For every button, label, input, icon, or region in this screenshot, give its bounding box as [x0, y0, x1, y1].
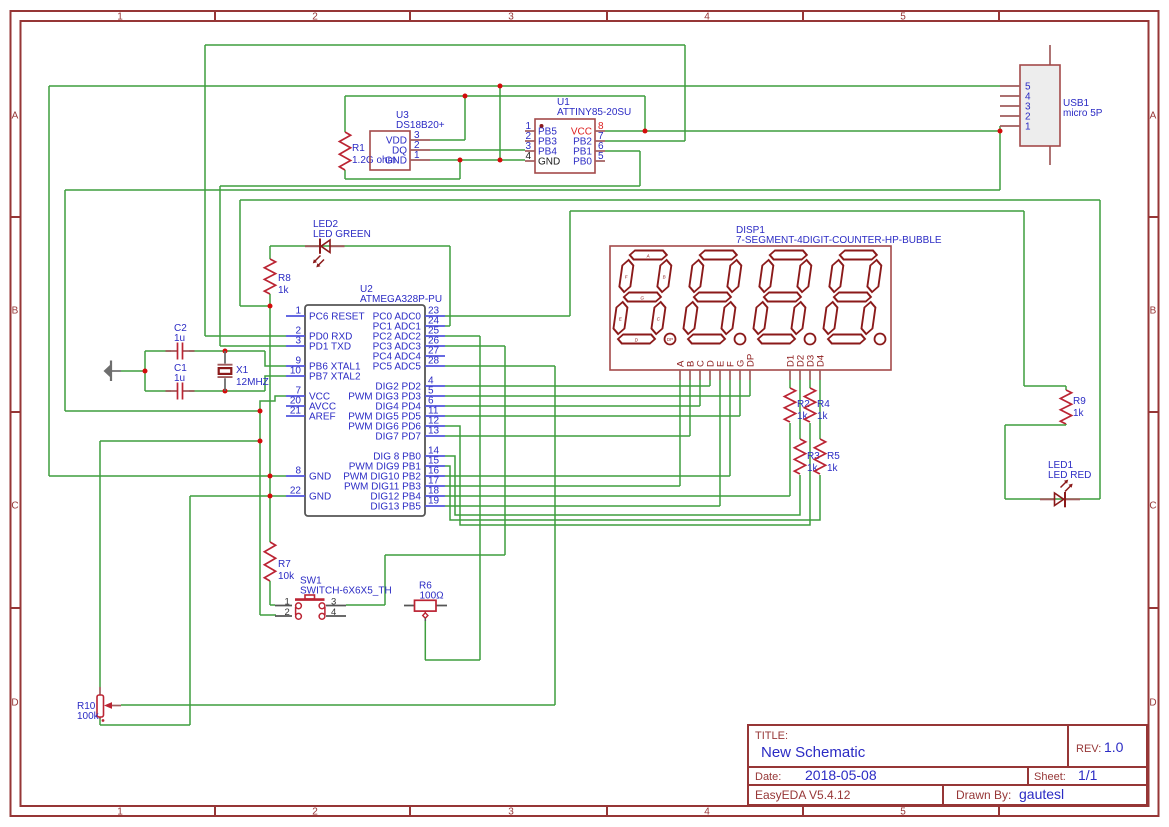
wire seg D vertical	[709, 380, 711, 386]
pin U2 13 line	[425, 435, 445, 437]
wire SW1 pin3 row	[346, 604, 385, 606]
svg-text:R4: R4	[817, 399, 830, 410]
svg-text:1u: 1u	[174, 333, 185, 344]
wire D1 to R2 top	[789, 380, 791, 388]
pin U2 20 line	[286, 405, 305, 407]
svg-text:DIG13 PB5: DIG13 PB5	[370, 502, 421, 513]
border tick bottom x410	[409, 806, 411, 816]
pin U2 26 line	[425, 345, 445, 347]
wire R10 top vertical	[99, 441, 101, 687]
svg-text:R5: R5	[827, 451, 840, 462]
resistor R6 symbol	[404, 600, 447, 621]
display DP2	[735, 334, 746, 345]
svg-text:100k: 100k	[77, 711, 100, 722]
svg-text:GND: GND	[538, 157, 560, 168]
wire R9 bottom lead	[1065, 424, 1067, 425]
svg-text:PC5 ADC5: PC5 ADC5	[373, 362, 422, 373]
wire GND vertical through R8 bottom	[269, 306, 271, 542]
svg-text:LED RED: LED RED	[1048, 470, 1091, 481]
wire R9 top lead	[1065, 386, 1067, 390]
svg-text:2: 2	[285, 607, 290, 618]
svg-text:R1: R1	[352, 143, 365, 154]
svg-text:R8: R8	[278, 273, 291, 284]
wire R9 bottom row	[1005, 424, 1066, 426]
pin U2 4 line	[425, 385, 445, 387]
svg-text:micro 5P: micro 5P	[1063, 108, 1103, 119]
svg-text:C: C	[11, 501, 18, 512]
svg-text:1/1: 1/1	[1078, 767, 1098, 783]
display DP1	[665, 334, 676, 345]
wire VCC jog to U2 pin7	[260, 396, 286, 411]
wire LED2 lead red right	[330, 245, 345, 247]
border tick bottom x215	[214, 806, 216, 816]
wire PD0 vertical down	[204, 45, 206, 336]
junction VCC-USB pin1	[998, 129, 1003, 134]
wire R6 row	[425, 659, 480, 661]
svg-text:2: 2	[312, 12, 318, 23]
pin USB1 1 stub	[1000, 125, 1020, 127]
svg-text:1: 1	[117, 807, 123, 818]
wire VCC U1 pin8 row	[605, 130, 1000, 132]
svg-text:SWITCH-6X6X5_TH: SWITCH-6X6X5_TH	[300, 586, 392, 597]
wire LED2 anode lead	[269, 246, 271, 259]
svg-text:DP: DP	[667, 337, 673, 342]
svg-text:PC6 RESET: PC6 RESET	[309, 312, 365, 323]
wire VCC left vertical	[64, 190, 66, 411]
wire R2 bottom vertical	[789, 423, 791, 496]
border tick top x999	[998, 11, 1000, 21]
svg-text:New Schematic: New Schematic	[761, 744, 866, 761]
svg-text:DIG7 PD7: DIG7 PD7	[375, 432, 421, 443]
wire ground link	[121, 370, 145, 372]
junction xtal bottom	[223, 389, 228, 394]
pin U1 3 stub	[525, 150, 535, 152]
switch SW1 symbol	[275, 595, 346, 619]
svg-text:3: 3	[508, 807, 514, 818]
wire xtal top to U2 pin9	[265, 351, 286, 366]
junction GND U2 pin22	[268, 494, 273, 499]
wire R6 wiper lead	[424, 620, 426, 660]
junction VCC row pin7	[258, 409, 263, 414]
resistor R1	[339, 132, 350, 170]
pin U2 28 line	[425, 365, 445, 367]
wire PB2 seg row	[445, 475, 730, 477]
IC U2 body	[305, 305, 425, 516]
wire xtal bottom row left	[145, 390, 171, 392]
wire DQ row	[430, 149, 525, 151]
pin U2 16 line	[425, 475, 445, 477]
wire LED1 right vertical	[1099, 200, 1101, 499]
wire PC2 vertical	[479, 336, 481, 660]
pin U2 5 line	[425, 395, 445, 397]
resistor R5	[814, 439, 825, 474]
pin U2 9 line	[286, 365, 305, 367]
svg-text:PB0: PB0	[573, 157, 592, 168]
wire PD1 vertical down	[219, 186, 221, 346]
svg-text:4: 4	[704, 807, 710, 818]
svg-text:1k: 1k	[817, 411, 829, 422]
wire LED1 lead red right	[1066, 498, 1081, 500]
wire PB3 seg row	[445, 485, 680, 487]
wire R1 bottom lead	[344, 170, 346, 179]
pin U2 8 line	[286, 475, 305, 477]
wire PB1 row at U1	[605, 150, 640, 152]
wire SW1 net row	[385, 554, 505, 556]
pin U3 2 stub	[410, 149, 430, 151]
ground symbol	[104, 361, 122, 382]
wire seg G vertical	[739, 380, 741, 416]
border tick right y217	[1148, 216, 1158, 218]
pin U2 11 line	[425, 415, 445, 417]
border tick right y608	[1148, 607, 1158, 609]
svg-text:gautesl: gautesl	[1019, 786, 1064, 802]
svg-text:5: 5	[900, 807, 906, 818]
svg-text:C: C	[1149, 501, 1156, 512]
pin U1 7 stub	[595, 140, 605, 142]
wire PB0 to R3 bottom	[445, 456, 800, 515]
wire seg DP vertical	[749, 380, 751, 396]
wire jog R8-bottom	[240, 305, 270, 307]
junction ground symbol	[143, 369, 148, 374]
resistor R2	[784, 388, 795, 422]
wire VCC row to R10 top	[100, 440, 260, 442]
capacitor C1 symbol	[166, 383, 195, 400]
pin DISP1 B stub	[689, 370, 691, 380]
wire PB2 top row	[205, 44, 685, 46]
pin USB1 5 stub	[1000, 85, 1020, 87]
wire PD2 row	[445, 385, 710, 387]
display DISP1 body	[610, 246, 891, 370]
wire PB1 to R5 bottom	[445, 466, 820, 520]
svg-text:13: 13	[428, 426, 440, 437]
svg-text:DS18B20+: DS18B20+	[396, 120, 445, 131]
pin U1 1 stub	[525, 130, 535, 132]
wire VCC long row	[65, 189, 1000, 191]
capacitor C2 symbol	[166, 343, 195, 360]
svg-text:1.0: 1.0	[1104, 739, 1124, 755]
pin U1 6 stub	[595, 150, 605, 152]
pin U1 8 stub	[595, 130, 605, 132]
wire GND row to U2 pin22	[190, 495, 286, 497]
wire R10 bottom row	[100, 724, 190, 726]
LED LED1 symbol	[1055, 480, 1073, 508]
svg-text:10k: 10k	[278, 571, 295, 582]
wire seg B vertical	[689, 380, 691, 436]
wire xtal bottom row right	[189, 390, 265, 392]
pin U2 27 line	[425, 355, 445, 357]
wire R10 bottom lead	[99, 717, 101, 725]
wire PB1 middle row	[220, 185, 640, 187]
wire GND row to U2 pin8	[49, 475, 286, 477]
svg-text:PB7 XTAL2: PB7 XTAL2	[309, 372, 361, 383]
wire VCC right vertical to USB pin1	[999, 126, 1001, 190]
wire GND U3-U1 row	[430, 159, 525, 161]
display digit 1 segments	[611, 251, 673, 344]
wire GND drop to U3 row	[499, 86, 501, 160]
wire LED1 lead red left	[1040, 498, 1055, 500]
wire PC0 row	[570, 210, 1024, 212]
svg-text:GND: GND	[309, 472, 331, 483]
title block outline	[748, 725, 1147, 805]
svg-text:5: 5	[900, 12, 906, 23]
U1 pin1 mark	[540, 124, 544, 128]
pin U1 5 stub	[595, 160, 605, 162]
svg-text:B: B	[12, 306, 19, 317]
pin U2 21 line	[286, 415, 305, 417]
border tick bottom x803	[802, 806, 804, 816]
border tick top x803	[802, 11, 804, 21]
wire xtal top row right	[189, 350, 265, 352]
svg-text:REV:: REV:	[1076, 743, 1101, 755]
svg-text:D: D	[11, 698, 18, 709]
pin USB1 2 stub	[1000, 115, 1020, 117]
pin U2 12 line	[425, 425, 445, 427]
wire R7-SW1 link	[270, 604, 275, 606]
wire seg C vertical	[699, 380, 701, 406]
svg-text:A: A	[1150, 111, 1157, 122]
wire xtal top row left	[145, 350, 171, 352]
wire PC5 vertical	[554, 366, 556, 705]
wire PB2 row at U1	[605, 140, 685, 142]
resistor R4	[804, 388, 815, 422]
wire GND left vertical	[48, 86, 50, 476]
wire PD4 row	[445, 405, 700, 407]
wire PD7 row	[445, 435, 690, 437]
resistor R9	[1060, 390, 1071, 424]
pin DISP1 C stub	[699, 370, 701, 380]
display DP4	[875, 334, 886, 345]
pin DISP1 F stub	[729, 370, 731, 380]
display digit 1 segment letters	[616, 254, 670, 343]
wire PB4 to R2 row	[445, 495, 790, 497]
display DP3	[805, 334, 816, 345]
svg-text:D: D	[1149, 698, 1156, 709]
wire R1 bottom loop	[345, 178, 460, 180]
pin U2 19 line	[425, 505, 445, 507]
pin DISP1 G stub	[739, 370, 741, 380]
wire VCC drop to U1 pin8	[644, 96, 646, 131]
pin USB1 shield top	[1049, 45, 1051, 65]
wire D4 to R5 top	[819, 380, 821, 439]
wire D3 to R4 top	[809, 380, 811, 388]
border tick top x215	[214, 11, 216, 21]
wire U2 pin28 row	[445, 365, 555, 367]
svg-text:B: B	[1150, 306, 1157, 317]
pin DISP1 D stub	[709, 370, 711, 380]
svg-text:19: 19	[428, 496, 440, 507]
IC U3 body	[370, 131, 410, 170]
wire R8 bottom lead	[269, 294, 271, 306]
svg-text:2: 2	[312, 807, 318, 818]
wire PD5 row	[445, 415, 740, 417]
wire seg F vertical	[729, 380, 731, 476]
wire R7 to SW1 lead	[269, 581, 271, 605]
border tick left y412	[10, 411, 20, 413]
svg-text:4: 4	[525, 151, 531, 162]
IC U1 body	[535, 119, 595, 173]
svg-text:TITLE:: TITLE:	[755, 730, 788, 742]
junction GND row U3	[498, 158, 503, 163]
svg-text:12MHZ: 12MHZ	[236, 377, 269, 388]
pin U2 15 line	[425, 465, 445, 467]
resistor R7	[264, 542, 275, 581]
svg-text:22: 22	[290, 486, 302, 497]
svg-text:1k: 1k	[1073, 408, 1085, 419]
pin U2 1 line	[286, 315, 305, 317]
pin U2 25 line	[425, 335, 445, 337]
svg-text:1k: 1k	[278, 285, 290, 296]
pin USB1 4 stub	[1000, 95, 1020, 97]
junction GND-USB5	[498, 84, 503, 89]
connector USB1 body	[1020, 65, 1060, 146]
pin U2 10 line	[286, 375, 305, 377]
svg-text:Sheet:: Sheet:	[1034, 771, 1066, 783]
svg-text:1: 1	[117, 12, 123, 23]
wire R9 net vertical	[1023, 211, 1025, 386]
pin DISP1 D4 stub	[819, 370, 821, 380]
svg-text:D4: D4	[816, 355, 827, 367]
wire D2 to R3 top	[799, 380, 801, 439]
pin U2 3 line	[286, 345, 305, 347]
junction VCC-U3VDD	[463, 94, 468, 99]
svg-text:21: 21	[290, 406, 302, 417]
svg-text:1: 1	[1025, 122, 1031, 133]
svg-text:1: 1	[414, 150, 420, 161]
svg-text:R9: R9	[1073, 396, 1086, 407]
pin U1 4 stub	[525, 160, 535, 162]
junction GND U2 pin8	[268, 474, 273, 479]
svg-text:ATMEGA328P-PU: ATMEGA328P-PU	[360, 294, 442, 305]
pin DISP1 D2 stub	[799, 370, 801, 380]
svg-text:8: 8	[295, 466, 301, 477]
LED LED2 symbol	[313, 239, 330, 268]
pin DISP1 D3 stub	[809, 370, 811, 380]
pin DISP1 E stub	[719, 370, 721, 380]
wire PC0 vertical	[569, 211, 571, 316]
wire SW1 pin2 link	[260, 614, 276, 616]
svg-text:AREF: AREF	[309, 412, 336, 423]
pin U3 1 stub	[410, 159, 430, 161]
wire PB1 vertical down	[639, 151, 641, 186]
svg-text:1u: 1u	[174, 373, 185, 384]
pin U2 14 line	[425, 455, 445, 457]
crystal X1 symbol	[218, 351, 233, 391]
svg-text:GND: GND	[309, 492, 331, 503]
pin DISP1 A stub	[679, 370, 681, 380]
wire LED1 row	[1005, 498, 1100, 500]
svg-text:PD1 TXD: PD1 TXD	[309, 342, 351, 353]
pin DISP1 D1 stub	[789, 370, 791, 380]
border tick right y412	[1148, 411, 1158, 413]
wire xtal bottom to U2 pin10	[265, 376, 286, 391]
svg-text:Date:: Date:	[755, 771, 781, 783]
display digit 2 segments	[681, 251, 743, 344]
wire LED2 lead red left	[305, 245, 320, 247]
border tick top x607	[606, 11, 608, 21]
wire LED2 to U2 pin24 vertical	[449, 246, 451, 326]
border tick left y217	[10, 216, 20, 218]
resistor R3	[794, 439, 805, 474]
svg-text:3: 3	[295, 336, 301, 347]
wire VCC vertical to SW1	[259, 411, 261, 615]
svg-text:100Ω: 100Ω	[420, 590, 445, 601]
svg-text:A: A	[12, 111, 19, 122]
display digit 3 segments	[751, 251, 813, 344]
wire VCC row to U2	[65, 410, 260, 412]
wire cap left vertical	[144, 351, 146, 391]
wire LED1 return long row	[240, 199, 1100, 201]
wire PB5 seg row	[445, 505, 720, 507]
wire U2 pin26 row	[445, 345, 505, 347]
wire LED1 return vertical	[239, 200, 241, 306]
wire PC3 vertical	[504, 346, 506, 555]
svg-text:1k: 1k	[827, 463, 839, 474]
pin DISP1 DP stub	[749, 370, 751, 380]
pin U2 7 line	[286, 395, 305, 397]
wire PD6 to R4 bottom	[445, 423, 810, 525]
svg-text:7-SEGMENT-4DIGIT-COUNTER-HP-BU: 7-SEGMENT-4DIGIT-COUNTER-HP-BUBBLE	[736, 235, 942, 246]
wire U3 VDD row	[430, 139, 465, 141]
wire U2 pin23 row	[445, 315, 570, 317]
junction R8 bottom	[268, 304, 273, 309]
svg-text:1: 1	[295, 306, 301, 317]
pin U2 22 line	[286, 495, 305, 497]
svg-text:X1: X1	[236, 365, 249, 376]
wire R9-LED1 link vertical	[1004, 425, 1006, 499]
wire PB2 vertical up	[684, 45, 686, 141]
svg-text:4: 4	[704, 12, 710, 23]
pin U2 2 line	[286, 335, 305, 337]
pin U1 2 stub	[525, 140, 535, 142]
wire LED2 row	[270, 245, 450, 247]
pin U2 17 line	[425, 485, 445, 487]
wire U2 pin2 row	[205, 335, 286, 337]
svg-text:LED GREEN: LED GREEN	[313, 229, 371, 240]
junction xtal top	[223, 349, 228, 354]
pin USB1 shield bottom	[1049, 146, 1051, 165]
wire GND top row	[49, 85, 1000, 87]
svg-text:4: 4	[331, 607, 336, 618]
border tick bottom x607	[606, 806, 608, 816]
wire R10 wiper row	[121, 704, 555, 706]
border tick top x410	[409, 11, 411, 21]
svg-text:10: 10	[290, 366, 302, 377]
wire U3 VDD branch vertical	[464, 96, 466, 140]
svg-text:DP: DP	[746, 354, 757, 367]
svg-text:EasyEDA V5.4.12: EasyEDA V5.4.12	[755, 788, 851, 802]
svg-text:2018-05-08: 2018-05-08	[805, 767, 877, 783]
pin USB1 3 stub	[1000, 105, 1020, 107]
wire seg E vertical	[719, 380, 721, 506]
svg-text:28: 28	[428, 356, 440, 367]
wire U2 pin24 stub row	[445, 325, 450, 327]
pin U2 24 line	[425, 325, 445, 327]
border tick left y608	[10, 607, 20, 609]
wire PD3 row	[445, 395, 750, 397]
border tick bottom x999	[998, 806, 1000, 816]
junction VCC row R10	[258, 439, 263, 444]
wire U2 pin25 row	[445, 335, 480, 337]
wire VCC upper row	[345, 95, 645, 97]
wire GND vertical to R10 bottom	[189, 496, 191, 725]
junction VCC-U1 pin8	[643, 129, 648, 134]
svg-text:5: 5	[598, 151, 604, 162]
pin U2 18 line	[425, 495, 445, 497]
pin U2 23 line	[425, 315, 445, 317]
svg-text:3: 3	[508, 12, 514, 23]
pin U2 6 line	[425, 405, 445, 407]
wire seg A vertical	[679, 380, 681, 486]
